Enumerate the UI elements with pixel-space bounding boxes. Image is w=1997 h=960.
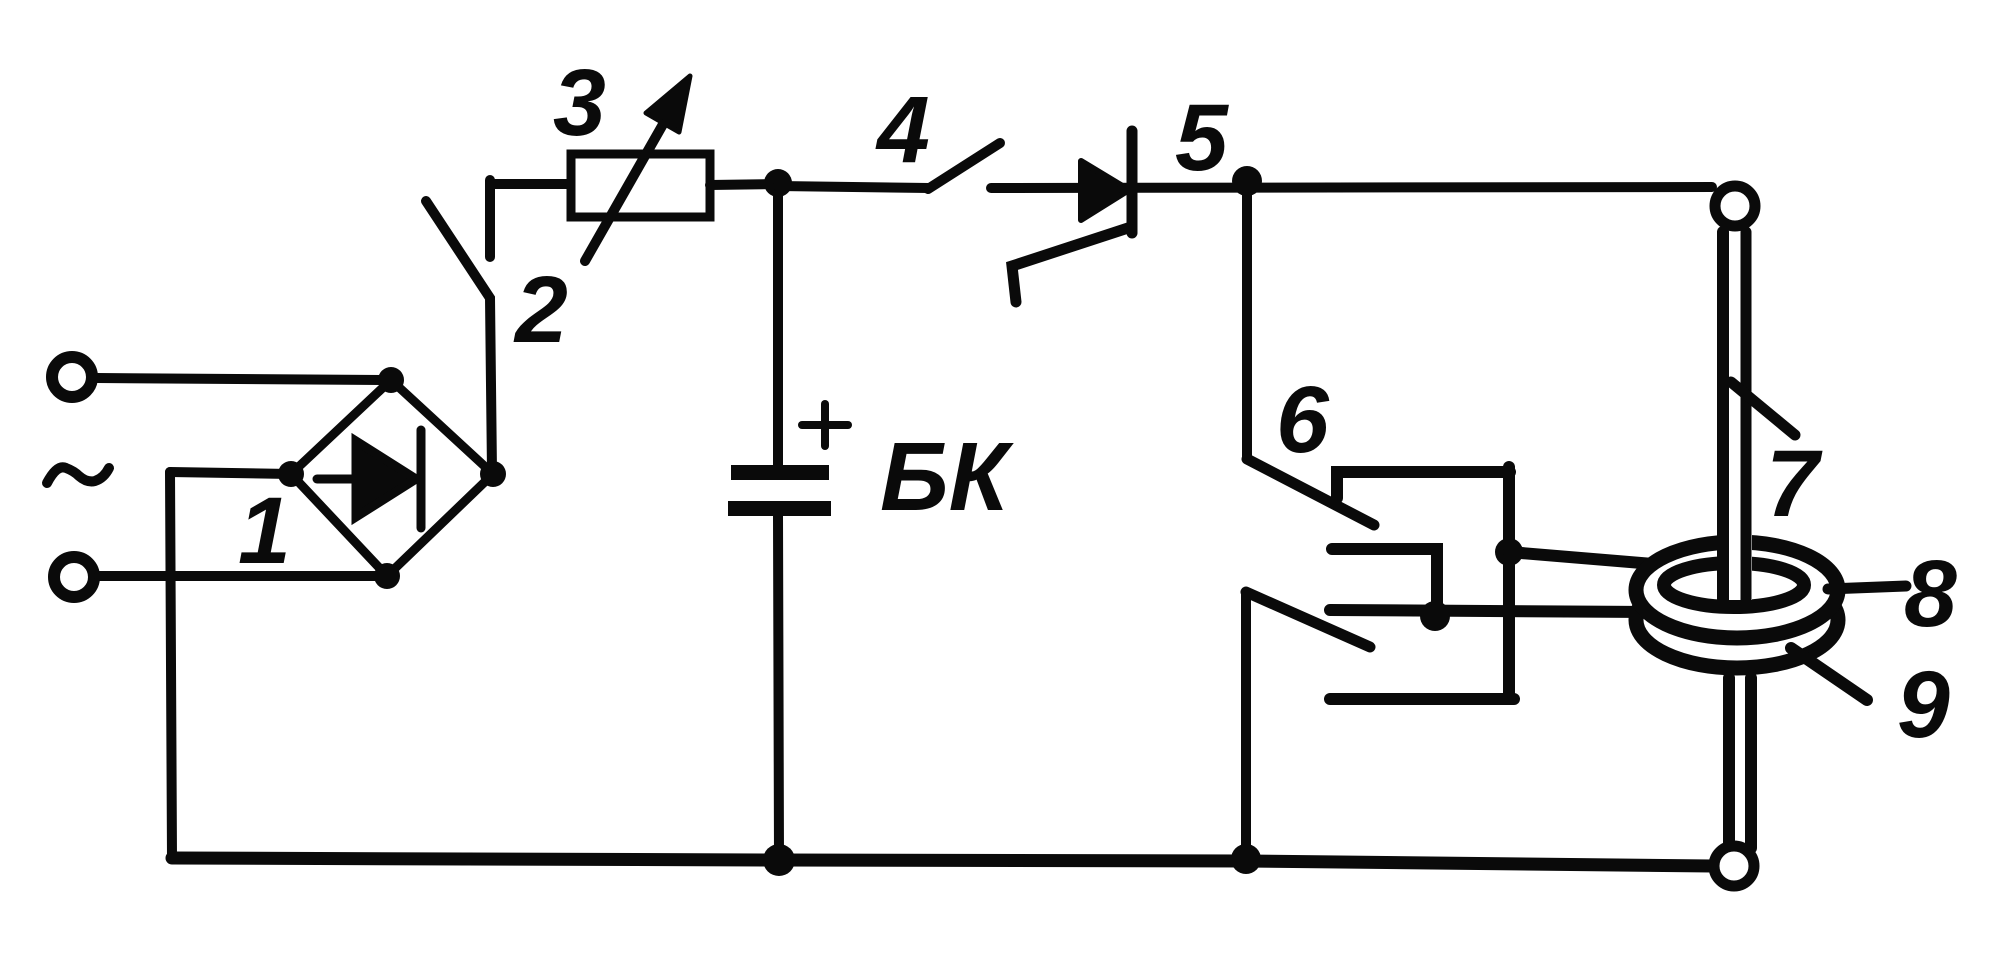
callout line to 8 — [1828, 586, 1906, 589]
thyristor 5 cathode bar — [1127, 131, 1138, 233]
wire long horizontal to coil — [1330, 610, 1650, 612]
junction dot long horizontal — [1420, 601, 1450, 631]
terminal top-left — [52, 357, 92, 397]
svg-text:9: 9 — [1897, 652, 1950, 758]
node dot capacitor top — [764, 169, 792, 197]
wire bottom terminal to bridge bottom — [99, 571, 387, 581]
bridge rectifier 1 diamond — [291, 380, 493, 576]
toroidal coil hole — [1664, 563, 1804, 607]
svg-text:1: 1 — [238, 478, 291, 584]
junction dot block right vertical — [1495, 538, 1523, 566]
switch 6 lower blade — [1246, 592, 1370, 647]
wire switch 6 lower vertical to bus — [1241, 592, 1251, 858]
node dot bridge top — [378, 367, 404, 393]
svg-text:6: 6 — [1276, 367, 1330, 473]
electrode rod 7 upper part — [1717, 232, 1752, 600]
wire top terminal to bridge top — [97, 378, 391, 380]
node dot 5 — [1232, 166, 1262, 196]
wire switch 4 to thyristor to node 5 to terminal — [991, 187, 1712, 188]
tilde AC symbol — [47, 467, 109, 483]
callout line to 9 — [1791, 648, 1867, 700]
thyristor 5 gate lead — [1012, 228, 1128, 302]
resistor 3 arrow head — [646, 76, 690, 132]
thyristor 5 triangle — [1081, 161, 1129, 220]
node dot bridge left — [278, 461, 304, 487]
wire node down to capacitor — [773, 183, 783, 466]
wire bottom bus — [172, 858, 1712, 866]
svg-text:БК: БК — [880, 422, 1015, 531]
electrode rod 7 lower part — [1720, 678, 1755, 848]
callout line to 7 — [1731, 382, 1795, 435]
terminal bottom-right — [1714, 846, 1754, 886]
capacitor BK bottom plate — [728, 501, 831, 516]
switch 2 fixed contact stub — [485, 180, 495, 257]
svg-text:4: 4 — [875, 77, 930, 183]
switch 6 upper blade — [1247, 459, 1374, 525]
contact block bottom bar — [1330, 693, 1514, 705]
wire capacitor to bus — [778, 516, 779, 859]
diode inside bridge — [317, 430, 421, 528]
svg-text:7: 7 — [1766, 431, 1823, 537]
node dot bridge bottom — [374, 563, 400, 589]
contact block top bar — [1337, 472, 1510, 498]
capacitor BK top plate — [731, 465, 829, 480]
svg-text:5: 5 — [1175, 85, 1229, 191]
wire node to switch 4 — [778, 186, 929, 188]
capacitor plus sign — [802, 404, 848, 446]
wire left vertical — [170, 472, 172, 858]
junction dot capacitor-bus — [763, 844, 795, 876]
contact block right vertical — [1503, 467, 1515, 699]
toroidal coil lower ring — [1636, 572, 1838, 668]
resistor 3 arrow shaft — [585, 112, 670, 261]
svg-text:8: 8 — [1904, 541, 1957, 647]
terminal bottom-left — [54, 557, 94, 597]
wire resistor to node — [710, 184, 778, 185]
svg-text:2: 2 — [513, 257, 568, 363]
junction dot lower vertical-bus — [1231, 844, 1261, 874]
toroidal coil outer ring 8 — [1636, 542, 1838, 638]
wire node 5 down to switch 6 — [1242, 186, 1252, 459]
wire stub to resistor 3 — [490, 179, 573, 189]
wire bridge left corner to left vertical — [170, 472, 291, 474]
node dot bridge right — [480, 461, 506, 487]
contact block middle-left bar — [1332, 549, 1437, 609]
switch 4 blade — [928, 143, 1000, 189]
svg-text:3: 3 — [553, 50, 606, 156]
wire block to coil upper — [1509, 552, 1654, 564]
variable resistor 3 body — [571, 154, 710, 217]
terminal top-right — [1715, 186, 1755, 226]
switch 2 blade — [426, 201, 492, 472]
